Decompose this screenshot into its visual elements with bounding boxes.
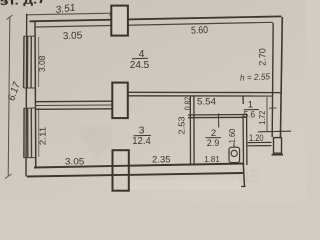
room4 south wall lower line [128,95,273,97]
dim tick right of 3.51 line [110,11,114,16]
corridor wall (room2 top) upper line [188,114,247,117]
top wall outer line [30,16,282,21]
dim tick bottom of 6.17 [5,174,12,179]
bottom cap of right wall [272,154,284,156]
column C3 bottom [113,150,129,191]
watermark blob left-center [80,124,113,160]
dim line 3.51 [27,13,111,15]
right wall inner line [272,23,273,137]
column C2 middle [112,83,128,119]
entrance line above 1.20 [258,130,291,133]
window W2 hatch lower [23,108,25,158]
room4 south wall upper line [128,91,281,93]
door tick on corridor wall [218,114,220,128]
room2 left wall lines [189,97,191,166]
dim tick top of 6.17 [7,15,13,20]
top wall inner line [36,22,273,27]
tick at right wall y108 [269,107,277,109]
wall pier right of entrance [274,138,282,154]
column C1 top [111,6,128,36]
middle wall 3 lines left section [36,100,112,103]
room1 left wall / shaft lines [242,96,244,104]
watermark ghost band bottom [128,180,246,190]
entrance threshold double line [248,141,272,143]
right wall outer line [280,17,282,153]
corridor wall (room2 top) lower line [188,116,247,118]
window W1 hatch upper [23,36,25,88]
bottom wall lower line [27,173,243,177]
left wall inner line [34,22,37,168]
bottom wall right cap [243,164,244,188]
bottom wall upper line [34,164,244,168]
dim line 6.17 vertical [8,18,10,177]
dim line 1.72 vertical [266,97,268,131]
toilet [229,147,240,162]
left wall outer line [25,14,28,177]
